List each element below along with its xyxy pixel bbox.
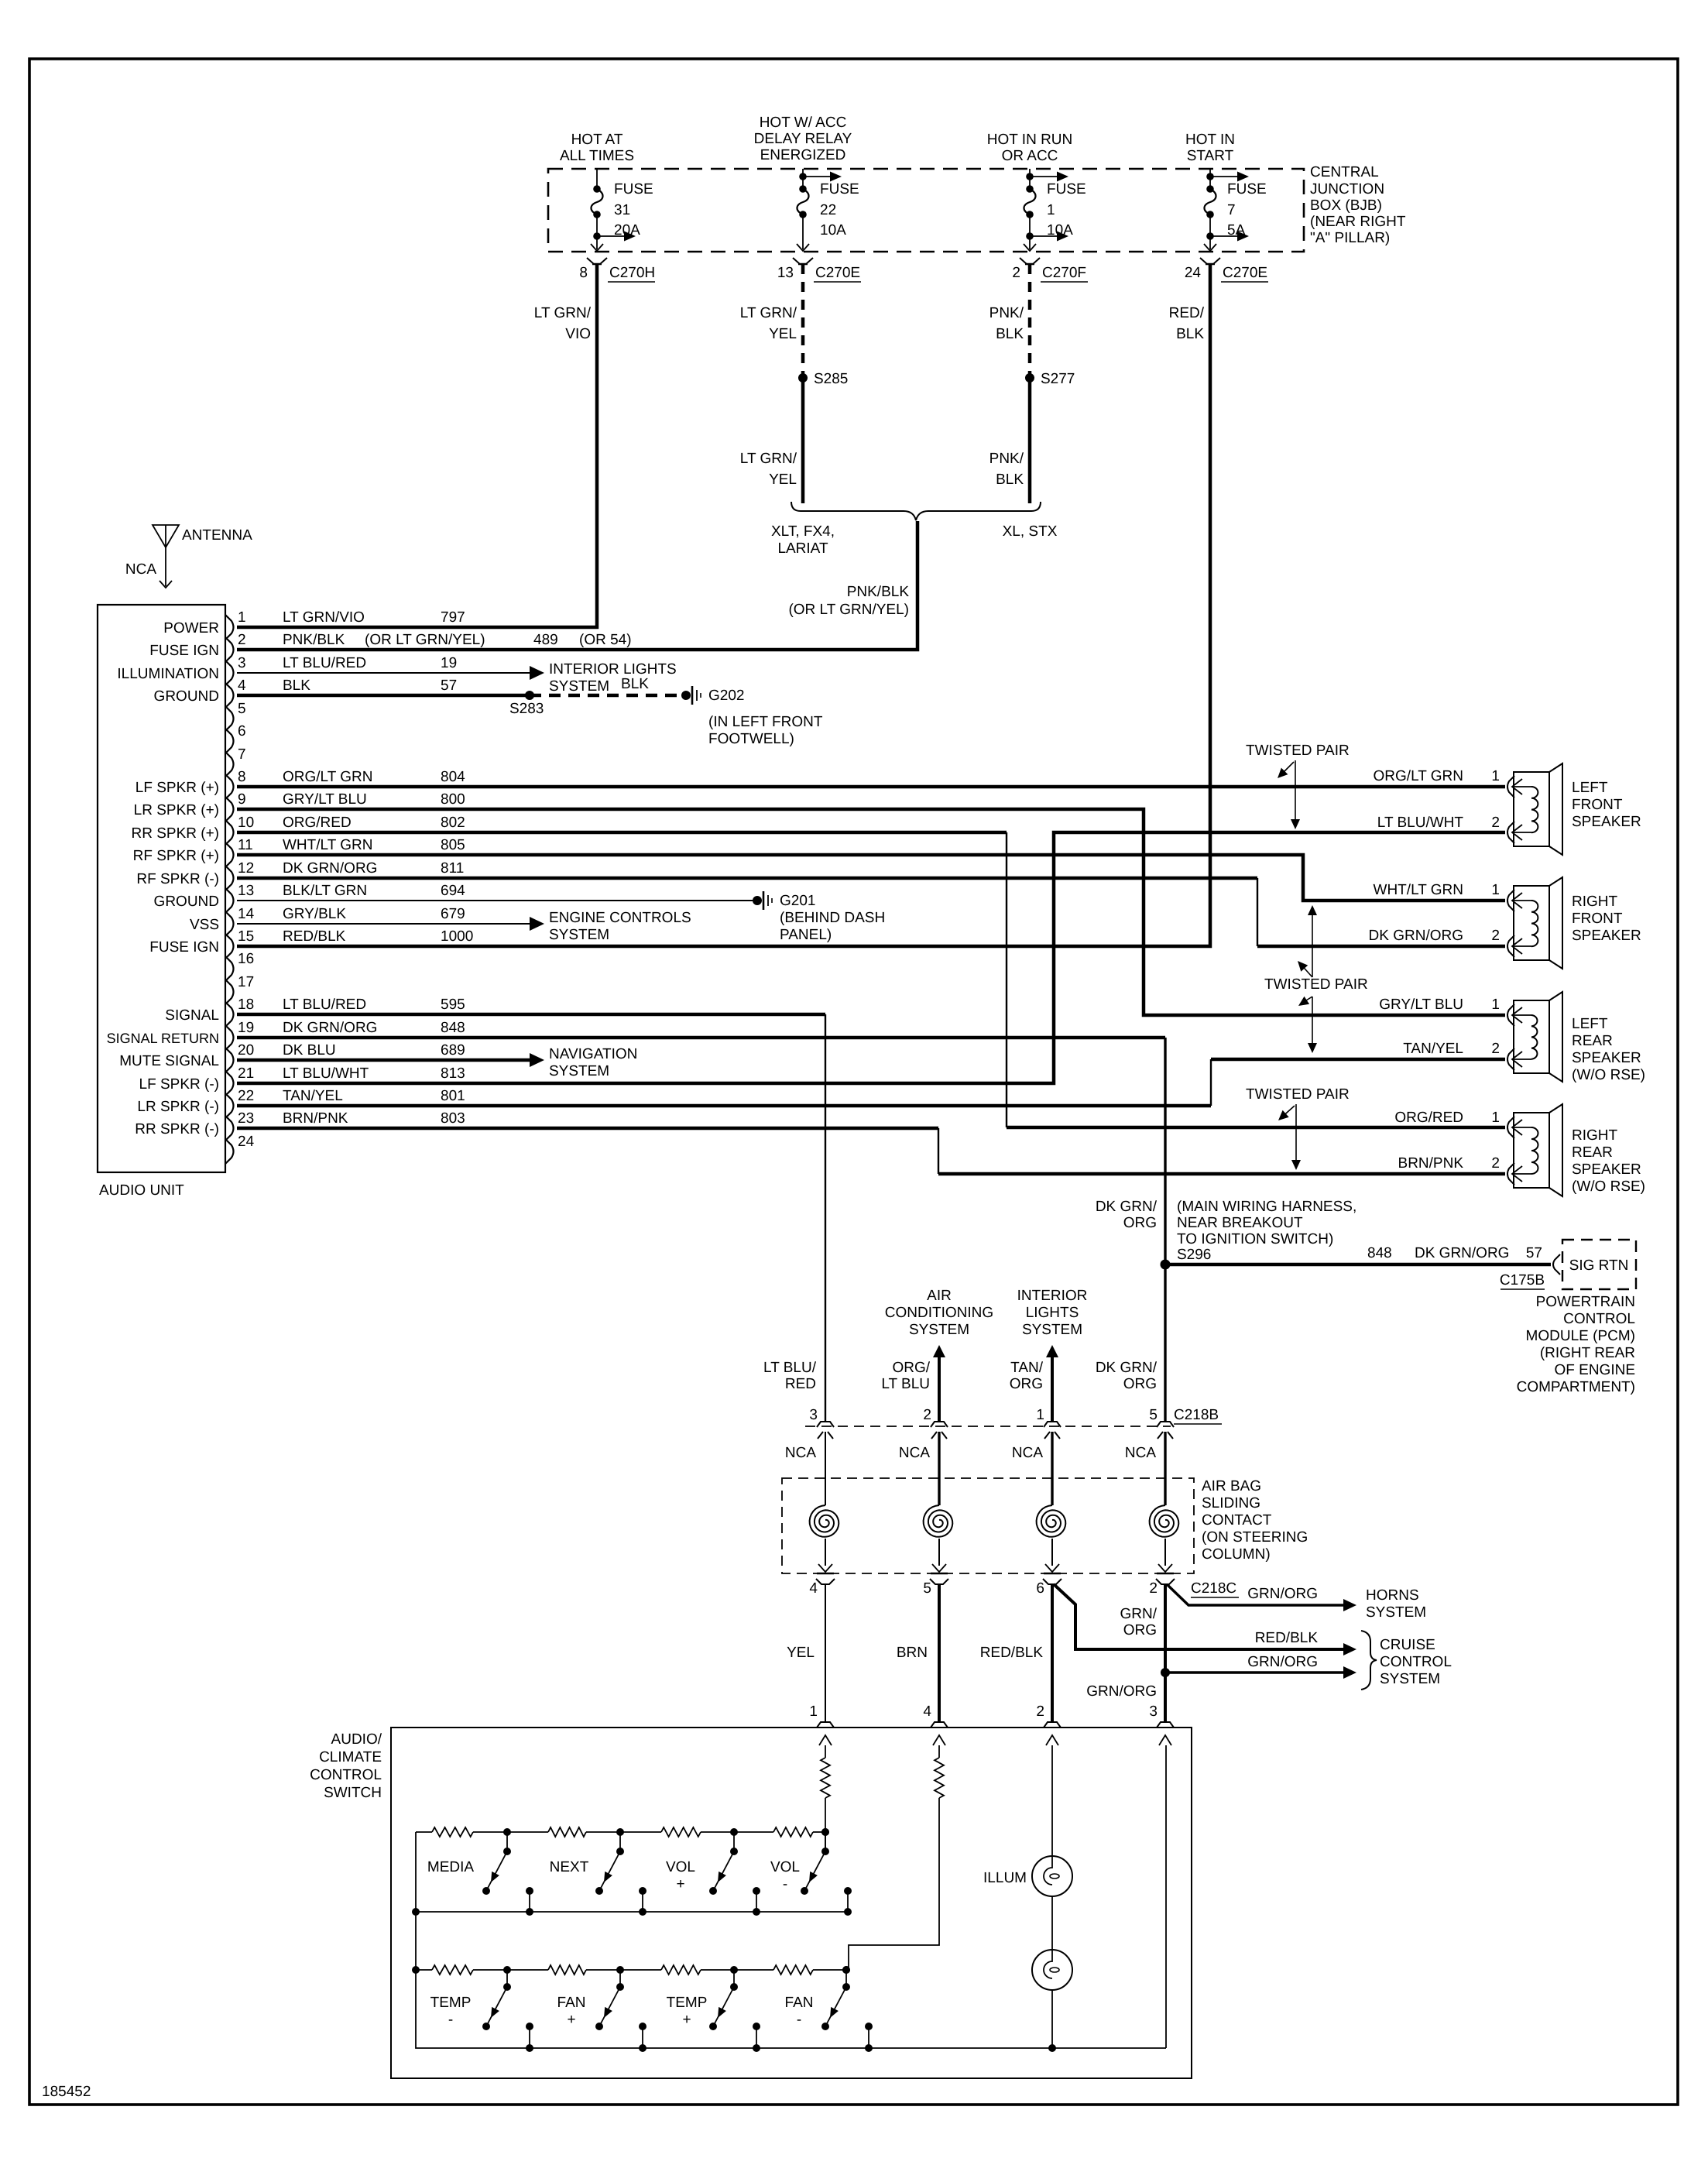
svg-text:DELAY RELAY: DELAY RELAY [754, 131, 852, 147]
svg-text:GROUND: GROUND [154, 894, 219, 910]
svg-text:S296: S296 [1177, 1247, 1211, 1263]
wire YEL from C218C pin 4 to switch pin 1 [825, 1584, 826, 1722]
svg-text:-: - [797, 2012, 801, 2028]
svg-text:1: 1 [1491, 882, 1500, 898]
svg-text:10A: 10A [820, 222, 846, 238]
svg-text:FAN: FAN [557, 1995, 586, 2011]
svg-text:OF ENGINE: OF ENGINE [1554, 1362, 1635, 1378]
svg-text:FUSE: FUSE [820, 181, 859, 197]
svg-text:16: 16 [238, 951, 254, 967]
svg-text:NCA: NCA [1012, 1445, 1043, 1461]
svg-text:PNK/BLK: PNK/BLK [283, 632, 345, 648]
svg-text:22: 22 [238, 1088, 254, 1104]
svg-text:BLK: BLK [996, 472, 1024, 488]
svg-text:5: 5 [238, 701, 246, 717]
svg-text:C218B: C218B [1174, 1407, 1219, 1423]
svg-text:TWISTED PAIR: TWISTED PAIR [1246, 743, 1350, 759]
svg-text:XLT, FX4,: XLT, FX4, [771, 523, 835, 540]
svg-text:SYSTEM: SYSTEM [1022, 1322, 1082, 1338]
svg-text:RF SPKR (-): RF SPKR (-) [136, 871, 219, 887]
svg-text:848: 848 [441, 1020, 465, 1036]
svg-text:HOT IN: HOT IN [1185, 132, 1235, 148]
audio unit pin 3 terminal [117, 655, 457, 685]
svg-text:DK GRN/ORG: DK GRN/ORG [1369, 928, 1463, 944]
svg-text:1: 1 [1036, 1407, 1044, 1423]
svg-text:GRN/ORG: GRN/ORG [1086, 1683, 1157, 1700]
svg-text:LT BLU/WHT: LT BLU/WHT [283, 1065, 369, 1082]
antenna symbol [153, 525, 179, 547]
svg-text:LF SPKR (+): LF SPKR (+) [135, 780, 219, 796]
svg-text:595: 595 [441, 997, 465, 1013]
svg-text:PNK/BLK: PNK/BLK [847, 584, 910, 600]
svg-text:SYSTEM: SYSTEM [549, 927, 609, 943]
svg-text:DK GRN/ORG: DK GRN/ORG [1415, 1245, 1509, 1261]
wire pin4 to vertical resistor [938, 1745, 940, 1758]
svg-text:SYSTEM: SYSTEM [909, 1322, 969, 1338]
svg-text:AIR: AIR [927, 1288, 952, 1304]
svg-text:LT BLU: LT BLU [881, 1376, 930, 1392]
lamp ILLUM 1 [1032, 1856, 1072, 1896]
svg-text:SYSTEM: SYSTEM [1380, 1671, 1440, 1687]
air bag sliding contact coil at x=1066 [810, 1432, 839, 1572]
air bag sliding contact dashed box [782, 1478, 1194, 1573]
svg-text:BRN/PNK: BRN/PNK [1398, 1155, 1464, 1172]
svg-text:BOX (BJB): BOX (BJB) [1310, 197, 1382, 214]
svg-text:4: 4 [809, 1580, 818, 1597]
svg-text:2: 2 [238, 632, 246, 648]
svg-text:(BEHIND DASH: (BEHIND DASH [780, 910, 885, 926]
svg-text:813: 813 [441, 1065, 465, 1082]
switch TEMP + [667, 1966, 760, 2052]
connector C218B pin 1 [1036, 1407, 1061, 1439]
svg-text:RR SPKR (+): RR SPKR (+) [132, 825, 220, 842]
svg-text:RF SPKR (+): RF SPKR (+) [133, 848, 219, 864]
svg-text:8: 8 [579, 265, 588, 281]
switch box pin entry at x=1066 [817, 1722, 834, 1745]
svg-text:VIO: VIO [565, 326, 591, 342]
svg-text:CENTRAL: CENTRAL [1310, 164, 1379, 180]
svg-text:ENGINE CONTROLS: ENGINE CONTROLS [549, 910, 691, 926]
svg-text:1: 1 [238, 609, 246, 626]
svg-text:ILLUMINATION: ILLUMINATION [117, 666, 219, 682]
svg-text:SIGNAL RETURN: SIGNAL RETURN [107, 1031, 219, 1046]
svg-text:LT GRN/VIO: LT GRN/VIO [283, 609, 365, 626]
fuse 31 20A (hot at all times) [591, 169, 653, 251]
splice S283 [525, 691, 534, 700]
svg-text:3: 3 [238, 655, 246, 671]
brace joining XLT/FX4/LARIAT and XL/STX wires [791, 502, 1041, 520]
svg-text:GRY/LT BLU: GRY/LT BLU [283, 791, 367, 808]
audio pin 2 labels PNK/BLK (OR LT GRN/YEL) 489 (OR 54) [283, 632, 632, 648]
svg-text:MUTE SIGNAL: MUTE SIGNAL [119, 1053, 219, 1069]
svg-text:NEAR BREAKOUT: NEAR BREAKOUT [1177, 1215, 1303, 1231]
svg-text:OR ACC: OR ACC [1002, 148, 1058, 164]
svg-text:SIGNAL: SIGNAL [165, 1007, 219, 1024]
wire pin 8 ORG/LT GRN to left front speaker pin 1 [237, 785, 1505, 789]
svg-text:ORG/: ORG/ [892, 1360, 930, 1376]
svg-text:+: + [567, 2012, 575, 2028]
svg-text:LT GRN/: LT GRN/ [740, 305, 797, 321]
wire pin 13 BLK/LT GRN to ground G201 [237, 900, 753, 901]
svg-text:COMPARTMENT): COMPARTMENT) [1517, 1379, 1635, 1395]
svg-text:ORG: ORG [1123, 1215, 1157, 1231]
svg-text:24: 24 [1185, 265, 1202, 281]
audio unit pin 24 terminal [225, 1134, 255, 1164]
svg-text:489: 489 [533, 632, 558, 648]
audio unit box [98, 605, 225, 1172]
left front speaker [1507, 763, 1562, 855]
svg-text:13: 13 [238, 883, 254, 899]
svg-text:AUDIO/: AUDIO/ [331, 1731, 382, 1748]
svg-text:VOL: VOL [770, 1859, 800, 1875]
svg-text:NCA: NCA [785, 1445, 816, 1461]
fuse 1 10A (hot in run or acc) [1024, 169, 1086, 251]
svg-text:7: 7 [1227, 202, 1236, 218]
svg-text:PNK/: PNK/ [989, 451, 1024, 467]
fuse 22 10A (hot w/ acc delay relay) [797, 169, 859, 251]
svg-text:RED/BLK: RED/BLK [980, 1645, 1044, 1661]
svg-text:XL, STX: XL, STX [1003, 523, 1058, 540]
svg-text:(W/O RSE): (W/O RSE) [1572, 1179, 1645, 1195]
svg-text:REAR: REAR [1572, 1033, 1613, 1049]
right rear speaker [1507, 1104, 1562, 1196]
svg-text:AUDIO UNIT: AUDIO UNIT [99, 1182, 184, 1199]
svg-text:SIG RTN: SIG RTN [1569, 1257, 1629, 1274]
svg-text:ORG/RED: ORG/RED [283, 815, 352, 831]
PCM SIG RTN dashed box [1562, 1240, 1636, 1289]
connector C218B pin 3 [809, 1407, 834, 1439]
svg-text:WHT/LT GRN: WHT/LT GRN [283, 837, 372, 853]
ground G202 [681, 686, 701, 705]
svg-text:CONTACT: CONTACT [1202, 1512, 1272, 1529]
svg-text:FUSE: FUSE [1227, 181, 1267, 197]
svg-text:LT GRN/: LT GRN/ [534, 305, 592, 321]
svg-text:CONTROL: CONTROL [1380, 1654, 1452, 1670]
connector C218C pin 6 [1036, 1573, 1061, 1597]
switch MEDIA [427, 1828, 533, 1916]
svg-text:BLK: BLK [621, 676, 649, 692]
svg-text:18: 18 [238, 997, 254, 1013]
audio unit pin 2 terminal [149, 632, 245, 662]
fuse 7 5A (hot in start) [1204, 169, 1267, 251]
wire PNK/BLK from S277 to brace [1028, 378, 1032, 503]
wire LT GRN/YEL from fuse 22 (dashed to S285) [801, 264, 805, 376]
svg-text:HOT AT: HOT AT [571, 132, 623, 148]
central junction box (BJB) dashed outline [548, 169, 1304, 252]
svg-text:"A" PILLAR): "A" PILLAR) [1310, 230, 1390, 246]
svg-text:11: 11 [238, 837, 253, 853]
wire RED/BLK branch from C218C pin 6 to cruise control [1054, 1584, 1347, 1649]
svg-text:YEL: YEL [769, 472, 797, 488]
connector C270E pin 24 [1185, 258, 1268, 282]
svg-text:1000: 1000 [441, 928, 473, 945]
svg-text:ILLUM: ILLUM [983, 1870, 1027, 1886]
svg-text:2: 2 [1491, 928, 1500, 944]
svg-text:2: 2 [923, 1407, 931, 1423]
svg-text:5A: 5A [1227, 222, 1246, 238]
connector C218B pin 5 [1149, 1407, 1174, 1439]
svg-text:185452: 185452 [42, 2084, 91, 2100]
svg-text:801: 801 [441, 1088, 465, 1104]
svg-text:BLK: BLK [1176, 326, 1204, 342]
svg-text:1: 1 [1491, 768, 1500, 784]
wire pin 21 LT BLU/WHT to left front speaker pin 2 [237, 832, 1505, 1083]
svg-text:+: + [676, 1876, 684, 1892]
svg-text:BRN: BRN [897, 1645, 928, 1661]
ground G201 [753, 891, 772, 910]
twisted pair callout (front speakers) [1246, 743, 1350, 829]
illumination lamp chain [1051, 1745, 1053, 1856]
svg-text:SPEAKER: SPEAKER [1572, 814, 1641, 830]
wire TAN/ORG to interior lights system (arrow up) [1051, 1355, 1054, 1421]
resistor in series with illumination row 2 feed [935, 1758, 944, 1798]
svg-text:(OR LT GRN/YEL): (OR LT GRN/YEL) [365, 632, 485, 648]
svg-text:C175B: C175B [1500, 1272, 1545, 1288]
audio unit pin 9 terminal [134, 791, 465, 822]
audio unit pin 19 terminal [107, 1020, 465, 1050]
svg-text:RR SPKR (-): RR SPKR (-) [135, 1121, 219, 1137]
svg-text:24: 24 [238, 1134, 255, 1150]
svg-text:TWISTED PAIR: TWISTED PAIR [1246, 1086, 1350, 1103]
svg-text:TEMP: TEMP [667, 1995, 708, 2011]
svg-text:GRN/ORG: GRN/ORG [1247, 1586, 1318, 1602]
svg-text:HOT W/ ACC: HOT W/ ACC [760, 115, 847, 131]
wire GRN/ORG switch pin 3 down to bottom bus [1165, 1745, 1167, 2048]
splice S277 [1025, 373, 1034, 383]
wire pin 18 LT BLU/RED down to C218B pin 3 [237, 1013, 825, 1017]
svg-text:LEFT: LEFT [1572, 780, 1608, 796]
svg-text:12: 12 [238, 860, 254, 877]
svg-text:22: 22 [820, 202, 836, 218]
svg-text:TAN/YEL: TAN/YEL [1403, 1041, 1463, 1057]
audio unit pin 23 terminal [135, 1110, 465, 1141]
svg-text:23: 23 [238, 1110, 254, 1127]
wire pin 22 TAN/YEL to left rear speaker pin 2 [237, 1104, 1211, 1108]
resistor in series with switch row 1 [821, 1758, 830, 1798]
svg-text:SPEAKER: SPEAKER [1572, 1161, 1641, 1178]
svg-text:PANEL): PANEL) [780, 927, 832, 943]
svg-text:LR SPKR (+): LR SPKR (+) [134, 802, 219, 818]
svg-text:20: 20 [238, 1042, 254, 1058]
switch VOL - [770, 1828, 852, 1916]
svg-text:802: 802 [441, 815, 465, 831]
svg-text:INTERIOR LIGHTS: INTERIOR LIGHTS [549, 661, 677, 678]
svg-text:6: 6 [238, 723, 246, 739]
svg-text:MEDIA: MEDIA [427, 1859, 475, 1875]
audio unit pin 15 terminal [149, 928, 473, 959]
svg-text:TAN/: TAN/ [1010, 1360, 1044, 1376]
svg-text:(RIGHT REAR: (RIGHT REAR [1540, 1345, 1635, 1361]
left bus vertical of switch matrix [416, 1832, 1166, 2048]
svg-text:ORG/RED: ORG/RED [1394, 1110, 1463, 1126]
wire PNK/BLK (OR LT GRN/YEL) from brace to audio pin 2 [237, 521, 917, 650]
svg-text:5: 5 [923, 1580, 931, 1597]
svg-text:17: 17 [238, 974, 254, 990]
audio unit pin 7 terminal [225, 746, 246, 777]
svg-text:19: 19 [441, 655, 457, 671]
wire BRN from C218C pin 5 to switch pin 4 [938, 1584, 941, 1722]
svg-text:FUSE: FUSE [1047, 181, 1086, 197]
connector C270H pin 8 [579, 258, 655, 282]
svg-text:FOOTWELL): FOOTWELL) [708, 731, 794, 747]
svg-text:LR SPKR (-): LR SPKR (-) [137, 1099, 219, 1115]
audio unit pin 21 terminal [139, 1065, 465, 1096]
audio unit pin 8 terminal [135, 769, 465, 799]
audio unit pin 12 terminal [136, 860, 464, 890]
svg-text:31: 31 [614, 202, 630, 218]
svg-text:HORNS: HORNS [1366, 1587, 1419, 1604]
audio unit pin 13 terminal [154, 883, 466, 913]
svg-text:ORG: ORG [1123, 1376, 1157, 1392]
wire BRN feed down to row 2 chain [849, 1798, 939, 1970]
svg-text:4: 4 [923, 1704, 931, 1720]
svg-text:(IN LEFT FRONT: (IN LEFT FRONT [708, 714, 823, 730]
svg-text:1: 1 [1491, 1110, 1500, 1126]
svg-text:DK GRN/ORG: DK GRN/ORG [283, 1020, 377, 1036]
svg-text:57: 57 [1526, 1245, 1542, 1261]
svg-text:ANTENNA: ANTENNA [182, 527, 252, 544]
svg-text:NAVIGATION: NAVIGATION [549, 1046, 637, 1062]
svg-text:SYSTEM: SYSTEM [1366, 1604, 1426, 1621]
svg-text:10: 10 [238, 815, 254, 831]
wire pin 4 BLK to splice S283 [237, 694, 530, 698]
svg-text:POWER: POWER [163, 620, 219, 636]
switch FAN + [557, 1966, 647, 2052]
svg-text:GRN/: GRN/ [1120, 1606, 1158, 1622]
connector C270E pin 13 [777, 258, 861, 282]
svg-text:FUSE IGN: FUSE IGN [149, 939, 219, 956]
svg-text:2: 2 [1491, 1155, 1500, 1172]
svg-text:-: - [448, 2012, 453, 2028]
svg-text:2: 2 [1491, 815, 1500, 831]
svg-text:HOT IN RUN: HOT IN RUN [987, 132, 1072, 148]
audio unit pin 17 terminal [225, 974, 254, 1004]
wire GRN/ORG from junction to cruise control [1165, 1671, 1347, 1673]
svg-text:SWITCH: SWITCH [324, 1785, 382, 1801]
wire pin 23 BRN/PNK to right rear speaker pin 2 [237, 1127, 938, 1131]
svg-text:8: 8 [238, 769, 246, 785]
svg-text:CRUISE: CRUISE [1380, 1637, 1435, 1653]
wire BLK dashed from S283 to ground G202 [530, 694, 681, 698]
svg-text:+: + [682, 2012, 691, 2028]
svg-text:LT BLU/WHT: LT BLU/WHT [1377, 815, 1464, 831]
svg-text:1: 1 [809, 1704, 818, 1720]
svg-text:20A: 20A [614, 222, 640, 238]
svg-text:14: 14 [238, 906, 255, 922]
wire pin 9 GRY/LT BLU to left rear speaker pin 1 [237, 809, 1505, 1015]
wire PNK/BLK from fuse 1 (dashed to S277) [1028, 264, 1032, 376]
connector C218B pin 2 [923, 1407, 948, 1439]
svg-text:ENERGIZED: ENERGIZED [760, 147, 846, 163]
svg-text:BLK: BLK [283, 678, 310, 694]
switch row 1 resistor chain [416, 1831, 432, 1833]
svg-text:(OR LT GRN/YEL): (OR LT GRN/YEL) [788, 602, 909, 618]
junction dot GRN/ORG branch to cruise [1161, 1668, 1170, 1677]
svg-text:DK GRN/: DK GRN/ [1096, 1360, 1158, 1376]
svg-text:2: 2 [1491, 1041, 1500, 1057]
svg-text:679: 679 [441, 906, 465, 922]
svg-text:9: 9 [238, 791, 246, 808]
svg-text:RED/BLK: RED/BLK [283, 928, 346, 945]
svg-text:-: - [783, 1876, 787, 1892]
svg-text:GRY/BLK: GRY/BLK [283, 906, 346, 922]
svg-text:13: 13 [777, 265, 794, 281]
svg-text:DK GRN/ORG: DK GRN/ORG [283, 860, 377, 877]
svg-text:848: 848 [1367, 1245, 1392, 1261]
svg-text:AIR BAG: AIR BAG [1202, 1478, 1261, 1494]
svg-text:YEL: YEL [769, 326, 797, 342]
svg-text:694: 694 [441, 883, 465, 899]
wire pin 12 DK GRN/ORG to right front speaker pin 2 [237, 877, 1257, 880]
audio unit pin 10 terminal [132, 815, 465, 845]
wire pin 14 GRY/BLK to engine controls system [237, 923, 530, 925]
svg-text:GROUND: GROUND [154, 688, 219, 705]
svg-text:(MAIN WIRING HARNESS,: (MAIN WIRING HARNESS, [1177, 1199, 1356, 1215]
switch TEMP - [430, 1966, 533, 2052]
svg-text:TO IGNITION SWITCH): TO IGNITION SWITCH) [1177, 1231, 1333, 1247]
svg-text:START: START [1187, 148, 1234, 164]
svg-text:FRONT: FRONT [1572, 797, 1623, 813]
svg-text:G201: G201 [780, 893, 815, 909]
svg-text:MODULE (PCM): MODULE (PCM) [1526, 1328, 1635, 1344]
svg-text:2: 2 [1036, 1704, 1044, 1720]
svg-text:1: 1 [1047, 202, 1055, 218]
lamp ILLUM 2 [1032, 1950, 1072, 1990]
svg-text:POWERTRAIN: POWERTRAIN [1536, 1294, 1635, 1310]
wire RED/BLK circuit from fuse 7 down to audio pin 15 row [237, 264, 1210, 946]
svg-text:3: 3 [809, 1407, 818, 1423]
cruise control brace [1361, 1631, 1377, 1690]
wire pin 20 DK BLU to navigation system [237, 1058, 530, 1062]
svg-text:GRN/ORG: GRN/ORG [1247, 1654, 1318, 1670]
switch box pin entry at x=1213 [931, 1722, 948, 1745]
svg-text:15: 15 [238, 928, 254, 945]
svg-text:ORG: ORG [1010, 1376, 1043, 1392]
svg-text:LT BLU/: LT BLU/ [763, 1360, 817, 1376]
svg-text:LT BLU/RED: LT BLU/RED [283, 655, 366, 671]
wire pin 11 WHT/LT GRN to right front speaker pin 1 [237, 855, 1505, 901]
svg-text:800: 800 [441, 791, 465, 808]
wire GRN/ORG from C218C pin 2 down to switch pin 3 [1164, 1584, 1167, 1722]
air bag sliding contact coil at x=1505 [1150, 1432, 1179, 1572]
svg-text:COLUMN): COLUMN) [1202, 1546, 1271, 1563]
wire switch pin 1 chain junction [825, 1832, 826, 1851]
svg-text:LF SPKR (-): LF SPKR (-) [139, 1076, 219, 1093]
svg-text:TAN/YEL: TAN/YEL [283, 1088, 343, 1104]
svg-text:NCA: NCA [1125, 1445, 1156, 1461]
svg-text:LEFT: LEFT [1572, 1016, 1608, 1032]
svg-text:LT BLU/RED: LT BLU/RED [283, 997, 366, 1013]
svg-text:ORG/LT GRN: ORG/LT GRN [1374, 768, 1463, 784]
audio unit pin 1 terminal [163, 609, 465, 640]
air bag sliding contact coil at x=1213 [924, 1432, 953, 1572]
svg-text:10A: 10A [1047, 222, 1073, 238]
switch row 1 bus [416, 1911, 848, 1913]
audio unit pin 18 terminal [165, 997, 465, 1027]
svg-text:797: 797 [441, 609, 465, 626]
svg-text:DK BLU: DK BLU [283, 1042, 336, 1058]
connector C175B [1553, 1254, 1560, 1275]
switch NEXT [550, 1828, 647, 1916]
wire LT GRN/YEL from S285 to brace [801, 378, 805, 503]
right front speaker [1507, 877, 1562, 969]
switch FAN - [785, 1966, 873, 2052]
connector C218C pin 4 [809, 1573, 835, 1597]
svg-text:S285: S285 [814, 371, 848, 387]
svg-text:YEL: YEL [787, 1645, 815, 1661]
svg-text:6: 6 [1036, 1580, 1044, 1597]
svg-text:GRY/LT BLU: GRY/LT BLU [1379, 997, 1463, 1013]
